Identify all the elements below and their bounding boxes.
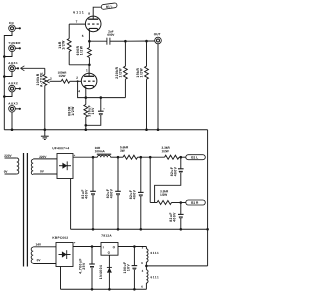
- bridge2 minus drop: [60, 267, 62, 290]
- resistor 220kR 1/2W feedback: [115, 40, 127, 98]
- svg-text:7812A: 7812A: [101, 234, 112, 238]
- input jack TUNER: [8, 41, 21, 52]
- svg-text:16V: 16V: [91, 107, 95, 115]
- triode 6111 upper half: [73, 10, 101, 31]
- transformer secondary 14V winding: [31, 243, 56, 264]
- bridge rectifier UF4007x4: [52, 146, 75, 178]
- jack CD signal pin: [15, 27, 21, 29]
- cap 82uF 400V #2: [106, 156, 121, 231]
- transformer primary 220V winding: [4, 154, 19, 174]
- svg-text:400V: 400V: [133, 189, 137, 199]
- svg-text:1/2W: 1/2W: [61, 40, 65, 50]
- resistor 5.6kR 3W: [120, 145, 141, 159]
- input jack AUX3: [8, 102, 18, 113]
- volume potentiometer 100kR A-TYPE: [36, 68, 47, 131]
- bridge minus drop: [70, 179, 72, 230]
- svg-text:OUT: OUT: [154, 32, 161, 36]
- output jack OUT: [154, 32, 162, 44]
- svg-text:16V: 16V: [127, 264, 131, 272]
- svg-text:220V: 220V: [4, 154, 12, 158]
- resistor 3.3kR 1/2W (L): [161, 146, 185, 159]
- diode 1N4004: [99, 255, 112, 290]
- resistor 15kR 1/2W load: [136, 40, 148, 131]
- svg-text:14V: 14V: [35, 243, 41, 247]
- output coupling capacitor 2uF 600V: [89, 29, 125, 44]
- PSU ground rail: [71, 228, 208, 230]
- svg-text:220V: 220V: [39, 155, 47, 159]
- AUX2 ground: [3, 92, 12, 98]
- feedback wire from grid node down and right to 220k: [78, 81, 126, 97]
- selector arrow into AUX1: [15, 66, 45, 71]
- upper triode pin 7 grid wire: [69, 20, 85, 25]
- svg-text:5: 5: [82, 34, 84, 38]
- svg-text:I: I: [103, 245, 104, 249]
- svg-text:100mA: 100mA: [95, 149, 106, 153]
- svg-text:6111: 6111: [150, 275, 159, 279]
- top ground rail: [4, 129, 207, 131]
- svg-text:CD: CD: [9, 21, 15, 25]
- heater ground rail: [61, 288, 147, 290]
- svg-text:AUX2: AUX2: [8, 81, 18, 85]
- resistor 100kR 1/2W grid: [58, 71, 82, 84]
- svg-text:1/2W: 1/2W: [71, 106, 75, 116]
- capacitor 330uF 16V cathode bypass: [85, 96, 106, 126]
- choke 10H 100mA with core bar: [93, 146, 123, 157]
- upper triode pin 8 plate lead to flag: [88, 7, 101, 19]
- bridge rectifier KBPC602: [52, 236, 75, 267]
- svg-text:1/2W: 1/2W: [140, 68, 144, 78]
- pot wiper arrow, pin 2: [47, 77, 62, 83]
- input jack AUX2: [8, 81, 18, 92]
- heater + wire: [73, 246, 101, 248]
- svg-text:25V: 25V: [82, 262, 86, 270]
- svg-text:1/2W: 1/2W: [119, 68, 123, 78]
- jack TUNER signal pin: [15, 47, 21, 49]
- svg-text:4: 4: [78, 89, 80, 93]
- OUT jack ground drop: [157, 44, 160, 131]
- lower triode pin 4 cathode lead: [78, 87, 86, 98]
- svg-text:B1 R: B1 R: [191, 201, 199, 205]
- cathode node dot: [85, 96, 88, 99]
- svg-text:1: 1: [86, 68, 88, 72]
- svg-text:2: 2: [50, 77, 52, 81]
- svg-text:1/2W: 1/2W: [58, 74, 65, 78]
- net flag B1 L: [186, 155, 206, 160]
- net flag B1 L (plate supply): [101, 3, 117, 10]
- jack CD is start of bus; TUNER ground: [3, 52, 12, 58]
- heater winding 6111 #1: [141, 245, 159, 267]
- svg-text:AUX3: AUX3: [8, 102, 18, 106]
- svg-text:1N4004: 1N4004: [99, 265, 103, 279]
- svg-text:600V: 600V: [107, 33, 114, 37]
- resistor 680R 1/2W cathode: [68, 98, 88, 131]
- svg-text:6111: 6111: [150, 251, 159, 255]
- svg-text:1/2W: 1/2W: [161, 149, 168, 153]
- heater winding 6111 #2: [141, 266, 159, 289]
- SRPP midpoint wire: [69, 64, 91, 67]
- svg-text:400V: 400V: [174, 166, 178, 176]
- regulator output wire: [118, 246, 146, 248]
- wire to out jack: [125, 40, 154, 42]
- cap 82uF 400V #3: [129, 156, 144, 231]
- B+ line from bridge: [73, 156, 93, 158]
- svg-text:1/2W: 1/2W: [160, 193, 167, 197]
- svg-text:7: 7: [76, 20, 78, 24]
- regulator 7812A: [101, 234, 118, 256]
- ground symbol: [41, 130, 49, 140]
- cap 82uF 400V #4: [155, 156, 184, 203]
- resistor 3.3kR 1/2W (R): [150, 189, 186, 204]
- cap 82uF 400V #5: [169, 201, 184, 230]
- svg-text:KBPC602: KBPC602: [52, 236, 68, 240]
- svg-text:2: 2: [76, 76, 78, 80]
- transformer secondary 220V winding: [31, 155, 57, 175]
- heater return wire to right bus: [146, 265, 207, 267]
- cap 82uF 400V #1: [81, 156, 96, 231]
- svg-text:400V: 400V: [173, 212, 177, 222]
- right ground bus: [206, 130, 209, 266]
- tap to B1R row: [141, 156, 165, 203]
- AUX1 ground: [3, 72, 12, 78]
- svg-text:1/2W: 1/2W: [80, 45, 84, 55]
- svg-text:A-TYPE: A-TYPE: [40, 72, 44, 87]
- svg-text:8: 8: [88, 12, 90, 16]
- jack AUX3 signal pin: [15, 108, 21, 110]
- cap 4,700uF 25V: [78, 245, 95, 290]
- svg-text:400V: 400V: [110, 188, 114, 198]
- input jack CD: [9, 21, 16, 32]
- lower triode pin 1 plate lead: [86, 65, 89, 77]
- svg-text:3W: 3W: [120, 149, 125, 153]
- transformer core: [24, 153, 28, 267]
- net flag B1 R: [186, 200, 206, 205]
- svg-text:B1 L: B1 L: [191, 155, 198, 159]
- svg-text:6111: 6111: [73, 10, 85, 14]
- resistor 1kR 1/2W grid stopper: [58, 24, 71, 65]
- svg-text:AUX1: AUX1: [8, 61, 18, 65]
- AUX3 ground drop: [11, 112, 14, 131]
- svg-text:TUNER: TUNER: [8, 41, 21, 45]
- input jack AUX1: [8, 61, 18, 72]
- ground bus for input jacks: [4, 32, 12, 130]
- jack AUX2 signal pin: [15, 88, 21, 90]
- svg-text:UF4007×4: UF4007×4: [52, 146, 69, 150]
- triode 6111 lower half: [81, 73, 97, 89]
- resistor 600R 1/2W upper cathode: [76, 41, 91, 65]
- svg-text:400V: 400V: [85, 189, 89, 199]
- cap 100uF 16V: [123, 245, 137, 290]
- grid junction node: [77, 80, 79, 82]
- upper triode pin 5 cathode lead: [82, 30, 91, 43]
